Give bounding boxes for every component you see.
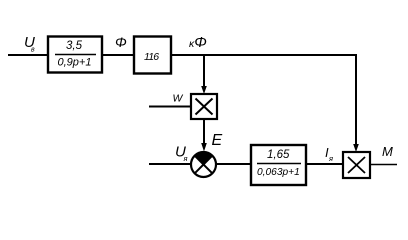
wire W input xyxy=(149,106,191,108)
wire kΦ main xyxy=(171,54,357,56)
svg-text:0,063p+1: 0,063p+1 xyxy=(257,167,300,178)
block K 116 xyxy=(134,37,171,74)
wire summer to W2 xyxy=(216,163,251,165)
svg-text:116: 116 xyxy=(144,51,159,63)
svg-text:1,65: 1,65 xyxy=(267,149,290,161)
svg-text:W: W xyxy=(173,93,184,105)
wire E from X1 to summer xyxy=(203,119,205,148)
wire Uя input xyxy=(149,163,191,165)
svg-text:E: E xyxy=(212,132,223,149)
multiplier X2 xyxy=(343,152,370,178)
svg-text:M: M xyxy=(382,144,393,159)
wire Iя to X2 xyxy=(306,163,343,165)
svg-text:3,5: 3,5 xyxy=(66,40,83,52)
multiplier X1 xyxy=(191,94,217,119)
svg-text:0,9p+1: 0,9p+1 xyxy=(58,57,92,69)
block W1 3.5/(0.9p+1) xyxy=(48,37,102,73)
wire W1 to K xyxy=(102,54,134,56)
block W2 1.65/(0.063p+1) xyxy=(251,145,306,185)
wire Uв input xyxy=(8,54,48,56)
svg-text:я: я xyxy=(183,154,188,163)
svg-text:я: я xyxy=(328,154,333,163)
summing junction (comparator, minus on top sector) xyxy=(191,152,216,177)
wire kΦ branch down to multiplier X2 xyxy=(355,54,357,149)
wire M output xyxy=(370,164,397,166)
wire kΦ branch down to multiplier X1 xyxy=(203,54,205,91)
svg-text:Φ: Φ xyxy=(115,34,127,50)
svg-text:в: в xyxy=(31,47,35,54)
